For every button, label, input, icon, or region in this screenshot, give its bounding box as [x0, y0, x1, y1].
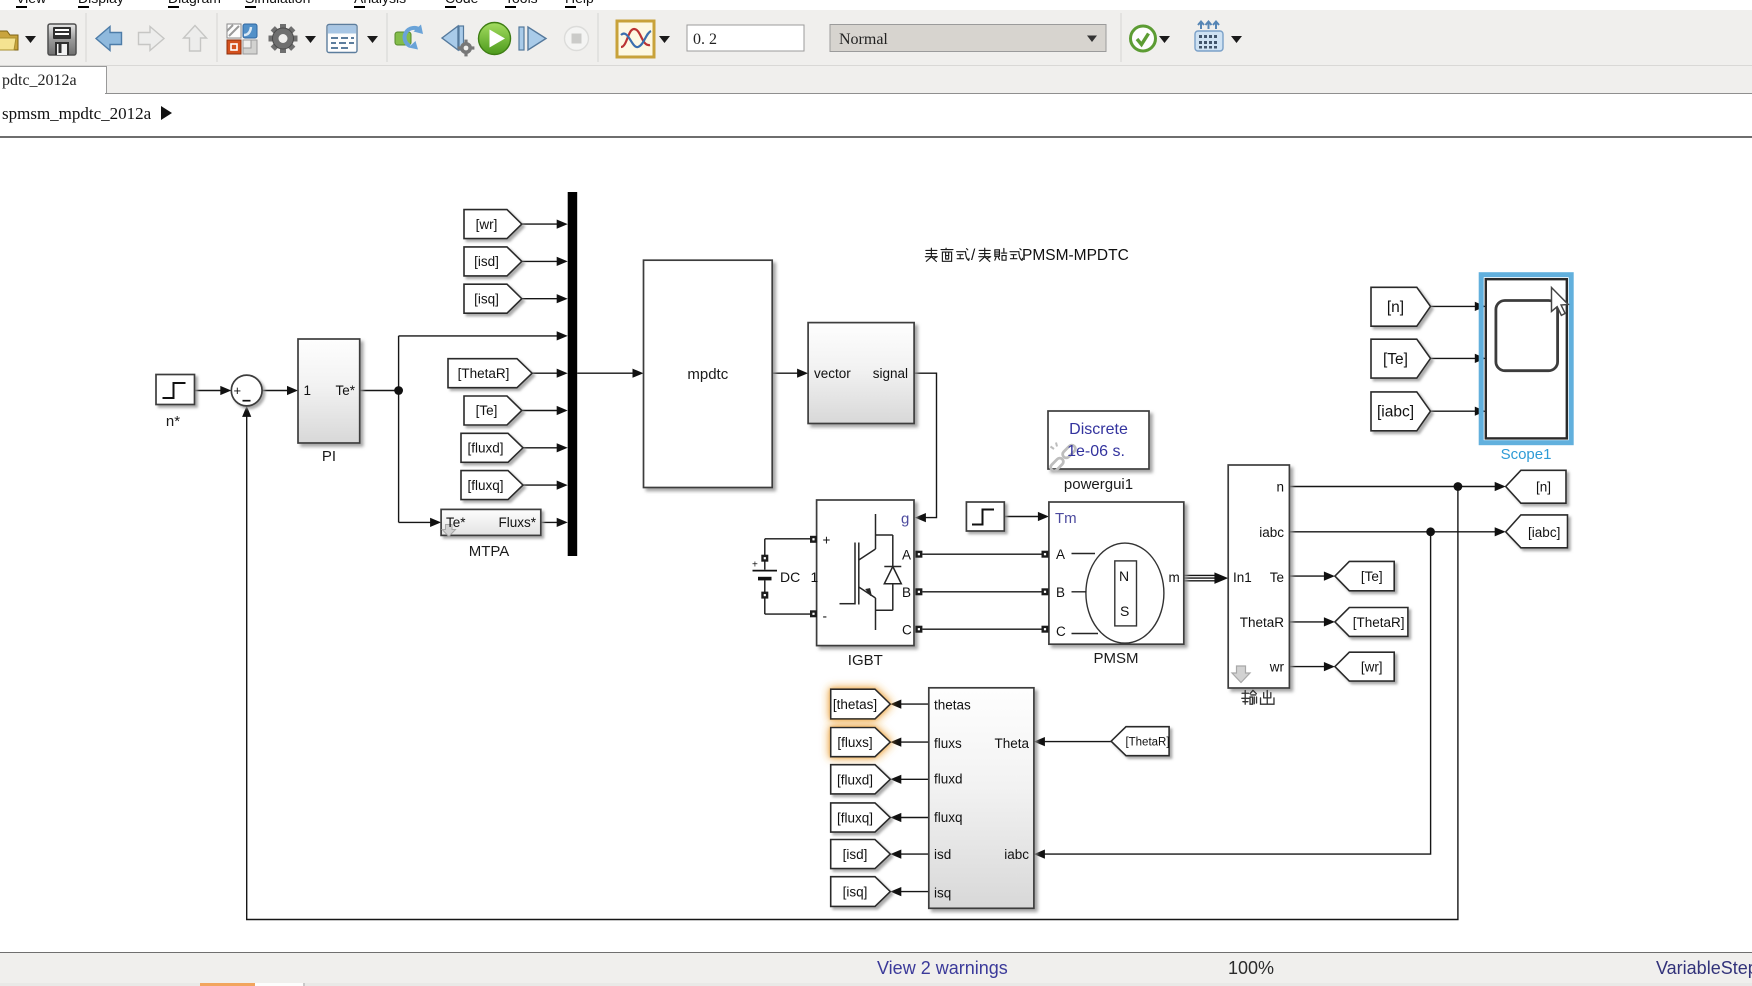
svg-text:[Te]: [Te]: [1383, 351, 1408, 368]
svg-text:[ThetaR]: [ThetaR]: [1353, 615, 1405, 630]
svg-text:1: 1: [811, 569, 819, 585]
svg-text:thetas: thetas: [934, 697, 971, 712]
svg-text:n: n: [1276, 480, 1284, 495]
svg-text:0. 2: 0. 2: [693, 31, 717, 48]
svg-text:Te: Te: [1270, 570, 1284, 585]
svg-text:1: 1: [304, 383, 312, 398]
svg-text:Theta: Theta: [994, 736, 1029, 751]
svg-text:ThetaR: ThetaR: [1240, 615, 1285, 630]
svg-text:-: -: [823, 609, 828, 624]
svg-text:C: C: [902, 623, 912, 638]
svg-text:iabc: iabc: [1259, 525, 1284, 540]
svg-text:/: /: [971, 247, 976, 264]
svg-text:isq: isq: [934, 886, 951, 901]
svg-text:N: N: [1119, 568, 1129, 584]
svg-text:DC: DC: [780, 569, 800, 585]
svg-text:[n]: [n]: [1387, 299, 1404, 316]
svg-text:MTPA: MTPA: [469, 543, 510, 560]
svg-text:[iabc]: [iabc]: [1377, 404, 1414, 421]
svg-text:[fluxq]: [fluxq]: [467, 478, 503, 493]
svg-text:PMSM: PMSM: [1094, 650, 1139, 667]
svg-text:Fluxs*: Fluxs*: [498, 515, 536, 530]
svg-text:+: +: [752, 560, 758, 571]
svg-text:1e-06 s.: 1e-06 s.: [1067, 443, 1125, 460]
svg-text:[Te]: [Te]: [476, 403, 498, 418]
svg-text:IGBT: IGBT: [848, 652, 883, 669]
svg-text:mpdtc: mpdtc: [687, 366, 728, 383]
svg-text:Tm: Tm: [1055, 510, 1077, 527]
svg-text:[iabc]: [iabc]: [1528, 525, 1560, 540]
svg-text:n*: n*: [166, 413, 180, 430]
svg-text:Te*: Te*: [446, 515, 466, 530]
svg-text:[fluxq]: [fluxq]: [837, 811, 873, 826]
svg-text:[fluxd]: [fluxd]: [837, 772, 873, 787]
svg-text:[Te]: [Te]: [1361, 569, 1383, 584]
svg-text:C: C: [1056, 624, 1066, 639]
svg-text:B: B: [1056, 585, 1065, 600]
svg-text:[wr]: [wr]: [476, 217, 498, 232]
svg-text:Discrete: Discrete: [1069, 421, 1128, 438]
svg-text:+: +: [823, 533, 831, 548]
svg-text:Normal: Normal: [839, 31, 888, 48]
svg-text:fluxd: fluxd: [934, 772, 963, 787]
svg-text:[n]: [n]: [1536, 480, 1551, 495]
svg-text:Scope1: Scope1: [1501, 446, 1552, 463]
svg-text:In1: In1: [1233, 570, 1252, 585]
svg-text:signal: signal: [873, 366, 908, 381]
svg-text:[isd]: [isd]: [843, 847, 868, 862]
svg-text:isd: isd: [934, 847, 951, 862]
svg-text:[ThetaR]: [ThetaR]: [1125, 737, 1169, 749]
svg-text:vector: vector: [814, 366, 851, 381]
svg-text:PMSM-MPDTC: PMSM-MPDTC: [1022, 247, 1129, 264]
svg-text:[wr]: [wr]: [1361, 660, 1383, 675]
svg-text:A: A: [1056, 547, 1065, 562]
svg-text:S: S: [1120, 603, 1129, 619]
svg-text:powergui1: powergui1: [1064, 476, 1133, 493]
svg-text:fluxq: fluxq: [934, 810, 963, 825]
svg-text:[fluxd]: [fluxd]: [467, 441, 503, 456]
svg-text:iabc: iabc: [1004, 847, 1029, 862]
svg-text:m: m: [1169, 570, 1180, 585]
svg-text:Te*: Te*: [335, 383, 355, 398]
svg-text:[fluxs]: [fluxs]: [837, 735, 872, 750]
svg-text:B: B: [902, 585, 911, 600]
svg-text:[isq]: [isq]: [474, 291, 499, 306]
svg-text:[isd]: [isd]: [474, 254, 499, 269]
svg-text:g: g: [901, 511, 909, 528]
svg-text:fluxs: fluxs: [934, 736, 962, 751]
svg-text:+: +: [234, 383, 242, 398]
svg-text:PI: PI: [322, 448, 336, 465]
svg-text:A: A: [902, 548, 911, 563]
svg-text:[ThetaR]: [ThetaR]: [458, 366, 510, 381]
svg-text:[isq]: [isq]: [843, 885, 868, 900]
svg-text:wr: wr: [1269, 660, 1285, 675]
svg-text:[thetas]: [thetas]: [833, 697, 877, 712]
